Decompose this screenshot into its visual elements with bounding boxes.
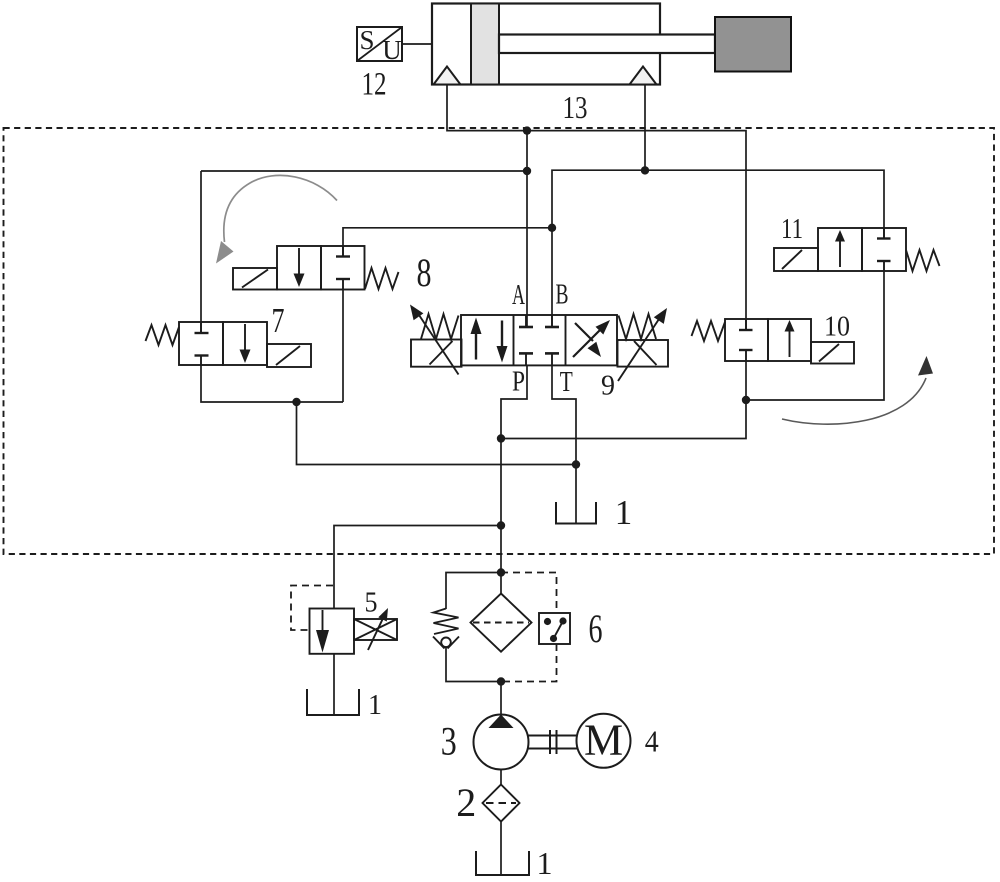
junction dot filter top	[497, 568, 505, 576]
wire return to T-line	[297, 402, 577, 465]
junction dot	[497, 521, 505, 529]
valve 9 (4/3 proportional directional valve)	[410, 305, 668, 382]
check valve spring	[434, 609, 459, 635]
clogging indicator 6	[539, 613, 570, 644]
junction dot P-line	[497, 434, 505, 442]
svg-text:B: B	[556, 280, 569, 311]
wire valves 7+8 bottoms return	[201, 365, 343, 402]
svg-text:P: P	[512, 367, 525, 398]
svg-text:6: 6	[589, 606, 603, 651]
tank 1 under T-line	[556, 502, 596, 524]
cylinder right port triangle	[630, 67, 657, 85]
svg-text:12: 12	[362, 67, 387, 103]
check valve ball	[441, 638, 451, 648]
svg-text:T: T	[560, 367, 573, 398]
wire T port	[552, 365, 576, 523]
junction dot	[572, 460, 580, 468]
wire P port	[501, 365, 527, 593]
wire sensor to cylinder	[402, 43, 432, 45]
mass block (load)	[715, 17, 791, 72]
svg-text:U: U	[382, 35, 402, 65]
svg-text:7: 7	[272, 301, 285, 340]
curved arrow left (gray)	[224, 175, 337, 242]
svg-text:M: M	[584, 716, 623, 765]
svg-text:9: 9	[601, 371, 615, 402]
check valve seat	[433, 637, 445, 649]
svg-text:8: 8	[417, 250, 432, 295]
relief valve 5	[310, 608, 398, 654]
junction dot	[523, 126, 531, 134]
filter element diamond	[471, 594, 532, 652]
svg-text:1: 1	[368, 690, 382, 721]
svg-text:4: 4	[645, 724, 659, 759]
svg-text:A: A	[512, 280, 525, 311]
wire filter to pump	[500, 682, 502, 715]
svg-text:5: 5	[365, 587, 378, 619]
cylinder left port triangle	[434, 67, 461, 85]
junction dot	[523, 167, 531, 175]
svg-text:3: 3	[441, 719, 457, 764]
junction dot filter bottom	[497, 677, 505, 685]
pilot dashed line valve 5	[291, 586, 333, 631]
svg-text:1: 1	[537, 845, 553, 881]
junction dot	[292, 398, 300, 406]
motor 4	[577, 714, 631, 768]
valve 7 (2/2 solenoid valve)	[146, 322, 312, 367]
wire relief branch	[334, 526, 501, 609]
svg-text:2: 2	[456, 780, 476, 825]
wire valve8 top to B-line	[343, 228, 552, 257]
svg-text:1: 1	[615, 493, 633, 532]
wire valve 8 bottom	[342, 290, 344, 403]
junction dot	[742, 396, 750, 404]
dashed enclosure box	[4, 128, 995, 554]
bypass check valve branch	[446, 573, 501, 610]
wire left loop down to valve 7	[200, 171, 202, 333]
cylinder 13 (hydraulic cylinder body)	[432, 4, 660, 85]
wire valve 5 to tank	[333, 654, 335, 715]
piston rod	[499, 35, 715, 54]
wire valves 10-11 bottoms	[746, 271, 884, 400]
valve 11 (2/2 solenoid valve)	[774, 228, 940, 271]
svg-text:11: 11	[781, 213, 803, 245]
suction strainer 2	[483, 785, 520, 822]
wire left rail	[201, 170, 527, 172]
wire valve 10 bottom	[745, 361, 747, 400]
sensor U1 (S/U displacement transducer)	[357, 25, 402, 65]
tank 1 main	[476, 851, 529, 875]
svg-text:S: S	[359, 25, 374, 55]
svg-text:13: 13	[563, 89, 588, 125]
wire P to pilot valves 10-11	[501, 400, 746, 439]
wire right rail	[552, 170, 884, 328]
wire from cylinder left port	[447, 85, 746, 332]
curved arrow right (gray)	[782, 378, 926, 424]
valve 10 (2/2 solenoid valve)	[692, 319, 855, 364]
wire from cylinder right port	[644, 85, 646, 171]
wire pump suction	[500, 770, 502, 785]
junction dot	[641, 166, 649, 174]
shaft coupling	[529, 735, 578, 737]
wire strainer to tank	[500, 822, 502, 876]
valve 8 (2/2 solenoid valve)	[233, 246, 399, 290]
wire A-line	[526, 131, 528, 328]
filter 6 dashed enclosure	[501, 573, 557, 614]
tank 1 under valve 5	[307, 689, 359, 715]
junction dot	[548, 224, 556, 232]
svg-text:10: 10	[824, 311, 850, 343]
pump 3	[474, 715, 529, 770]
